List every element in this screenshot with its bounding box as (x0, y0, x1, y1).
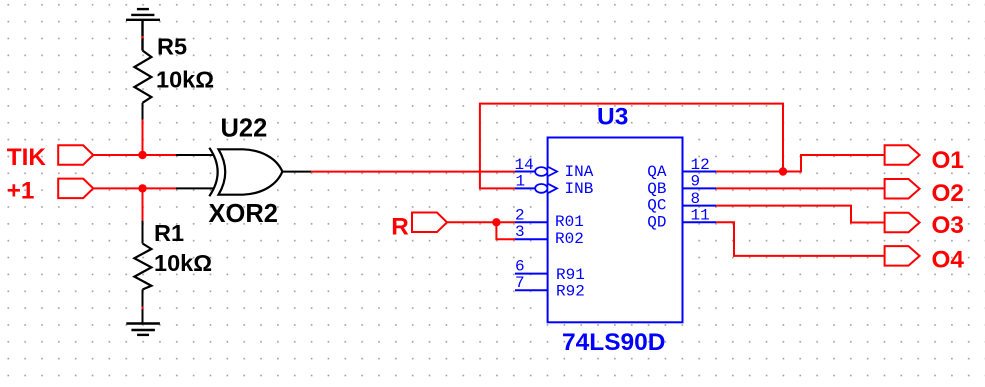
svg-text:14: 14 (515, 156, 534, 174)
svg-text:3: 3 (515, 223, 525, 241)
svg-text:6: 6 (515, 258, 525, 276)
svg-text:QB: QB (647, 180, 666, 198)
svg-text:O4: O4 (932, 246, 965, 273)
wire R to R01 (red) (447, 221, 515, 223)
wire +1 rail to R1 (red vertical) (142, 188, 144, 220)
wire stub on R1 stem (red speck) (142, 307, 144, 310)
junction +1 rail (138, 184, 146, 192)
junction TIK rail (138, 151, 146, 159)
pin 3 R02 (515, 223, 584, 248)
svg-text:+1: +1 (7, 178, 35, 205)
wire QC to O3 (red) (716, 206, 885, 223)
pin 2 R01 (515, 206, 584, 231)
wire R branch to R02 (red) (496, 222, 515, 239)
svg-text:9: 9 (691, 173, 701, 191)
junction QA feedback (779, 167, 787, 175)
pin 7 R92 (515, 274, 585, 300)
svg-text:R02: R02 (555, 230, 584, 248)
svg-text:QC: QC (647, 197, 666, 215)
port TIK (7, 144, 93, 171)
svg-text:R1: R1 (154, 220, 184, 246)
IC U3 body (548, 104, 683, 356)
port O4 (885, 246, 965, 273)
svg-text:QD: QD (647, 213, 666, 231)
ground (flipped, top of R5) (126, 9, 160, 50)
svg-text:XOR2: XOR2 (209, 200, 278, 228)
pin 8 QC (647, 190, 716, 215)
port O2 (885, 179, 964, 207)
port O1 (885, 145, 964, 174)
port O3 (885, 212, 964, 239)
wire QA feedback to INB (red loop) (480, 104, 783, 189)
pin 6 R91 (515, 258, 585, 284)
XOR input pin leads (black) (176, 155, 213, 188)
svg-text:O1: O1 (932, 147, 964, 174)
pin 1 INB (515, 173, 593, 198)
pin 12 QA (647, 156, 716, 181)
op XOR gate U22 (209, 115, 283, 229)
wire TIK to XOR (red) (93, 154, 176, 156)
svg-text:O3: O3 (932, 212, 964, 239)
port +1 (7, 178, 94, 205)
svg-text:INA: INA (565, 163, 594, 181)
svg-text:R: R (391, 213, 409, 240)
svg-text:74LS90D: 74LS90D (562, 329, 666, 356)
svg-text:INB: INB (565, 180, 594, 198)
wire +1 to XOR (red) (93, 187, 176, 189)
svg-text:7: 7 (515, 274, 525, 292)
svg-text:2: 2 (515, 206, 525, 224)
svg-text:10kΩ: 10kΩ (154, 250, 212, 276)
junction R branch (492, 218, 500, 226)
svg-text:R91: R91 (556, 266, 585, 284)
wire XOR out to INA (red) (311, 171, 515, 173)
svg-text:8: 8 (691, 190, 701, 208)
XOR output pin lead (black) (282, 171, 311, 173)
svg-text:11: 11 (691, 206, 710, 224)
svg-text:12: 12 (691, 156, 710, 174)
wire QD to O4 (red) (716, 222, 885, 256)
svg-text:1: 1 (516, 173, 526, 191)
wire QA to O1 (red) (716, 155, 885, 172)
svg-text:QA: QA (647, 163, 667, 181)
pin 9 QB (647, 173, 716, 198)
svg-text:R92: R92 (556, 283, 585, 301)
svg-text:R5: R5 (157, 33, 187, 59)
pin 11 QD (647, 206, 716, 231)
svg-text:TIK: TIK (7, 144, 47, 171)
svg-text:R01: R01 (555, 213, 584, 231)
resistor R5 (134, 33, 214, 119)
svg-text:U3: U3 (597, 104, 628, 131)
port R (391, 213, 447, 241)
svg-text:O2: O2 (932, 180, 964, 207)
svg-text:U22: U22 (221, 115, 268, 143)
wire R5 to TIK/+1 rail (red vertical) (142, 120, 144, 156)
resistor R1 (134, 220, 212, 324)
svg-text:10kΩ: 10kΩ (156, 66, 214, 92)
ground (bottom of R1) (126, 324, 160, 335)
pin 14 INA (515, 156, 594, 181)
wire stub on R5 stem (red speck) (142, 36, 144, 39)
wire QB to O2 (red) (716, 187, 885, 189)
